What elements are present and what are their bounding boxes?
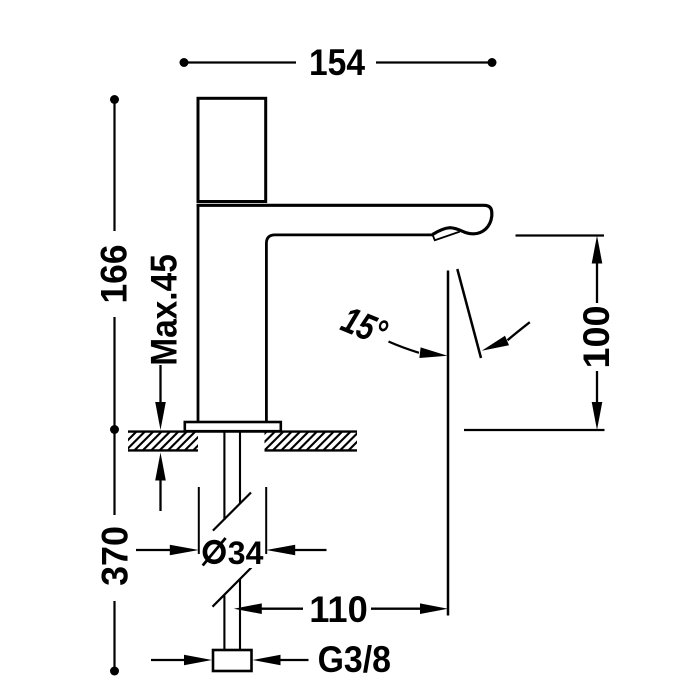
diameter 34 extension lines — [198, 487, 200, 554]
counter top line — [128, 430, 357, 432]
G3/8 connection arrows — [151, 659, 186, 661]
dimension 154 top — [180, 43, 497, 84]
pipe break upper — [213, 493, 251, 531]
diameter 34 left arrow — [136, 549, 172, 551]
svg-text:100: 100 — [575, 306, 617, 369]
pipe break lower — [213, 568, 252, 607]
svg-text:154: 154 — [309, 43, 365, 84]
water stream vertical line — [447, 271, 450, 616]
counter bottom lines — [128, 449, 198, 451]
15 degree right arc arrow — [508, 322, 530, 340]
counter hatch left block — [109, 432, 212, 451]
svg-text:370: 370 — [94, 526, 136, 586]
aerator wedge at spout tip — [433, 232, 460, 241]
svg-text:110: 110 — [309, 589, 367, 630]
faucet handle — [198, 98, 266, 201]
15 degree left arc arrow — [389, 342, 420, 353]
counter hatch right block — [248, 432, 368, 451]
spout underside — [266, 235, 432, 422]
supply pipe — [223, 432, 225, 521]
diameter 34 right arrow — [293, 549, 327, 551]
dimension 100 right — [516, 234, 605, 236]
dimension 166 left — [93, 95, 135, 434]
body left edge — [197, 204, 200, 422]
svg-text:G3/8: G3/8 — [318, 639, 391, 681]
svg-text:166: 166 — [93, 244, 135, 303]
svg-text:Max.45: Max.45 — [144, 254, 185, 366]
Max.45 down arrow — [159, 365, 161, 404]
diameter 34 text — [201, 533, 265, 568]
faucet body and spout outline — [197, 205, 492, 234]
G3/8 connector — [213, 650, 252, 671]
svg-text:34: 34 — [228, 535, 264, 571]
dimension 370 left bottom — [94, 430, 136, 676]
dimension 110 (pipe axis to outlet) — [259, 608, 303, 610]
base flange — [185, 422, 281, 431]
15 degree slanted line — [457, 269, 481, 358]
Max.45 up arrow — [159, 478, 161, 511]
